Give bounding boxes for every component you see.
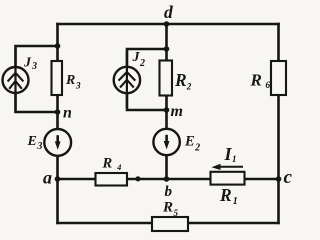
junction J3 top xyxy=(55,43,61,49)
junction dot after R4 xyxy=(135,176,140,181)
svg-text:d: d xyxy=(164,2,173,22)
svg-text:a: a xyxy=(43,168,52,188)
current source J3 xyxy=(3,48,29,110)
node a xyxy=(55,176,61,182)
wire middle a-b-c (through R4, R1) xyxy=(58,178,279,181)
resistor R6 xyxy=(271,61,286,95)
wire J3 branch xyxy=(16,46,58,112)
svg-text:n: n xyxy=(63,105,72,122)
wire right vertical (through R6) xyxy=(277,24,280,223)
node n xyxy=(55,109,61,115)
node c xyxy=(276,176,282,182)
wire left vertical (through R3, E3) xyxy=(56,24,59,223)
current arrow I1 xyxy=(212,164,244,170)
resistor R3 xyxy=(52,61,63,95)
node b xyxy=(164,176,170,182)
emf source E2 xyxy=(153,129,179,155)
resistor R4 xyxy=(96,173,128,186)
svg-text:m: m xyxy=(171,103,183,120)
wire d vertical (through R2, E2) xyxy=(165,24,168,179)
resistor R5 xyxy=(152,217,188,231)
svg-text:c: c xyxy=(284,167,293,188)
node m xyxy=(164,107,170,113)
emf source E3 xyxy=(44,129,71,156)
resistor R2 xyxy=(160,61,173,96)
node d xyxy=(164,21,170,27)
wire J2 branch xyxy=(127,49,167,110)
junction J2 top xyxy=(164,46,170,52)
wire top (d rail) xyxy=(58,23,279,26)
resistor R1 xyxy=(211,172,245,185)
current source J2 xyxy=(114,51,140,108)
wire bottom (through R5) xyxy=(58,222,279,225)
svg-text:b: b xyxy=(165,184,173,200)
